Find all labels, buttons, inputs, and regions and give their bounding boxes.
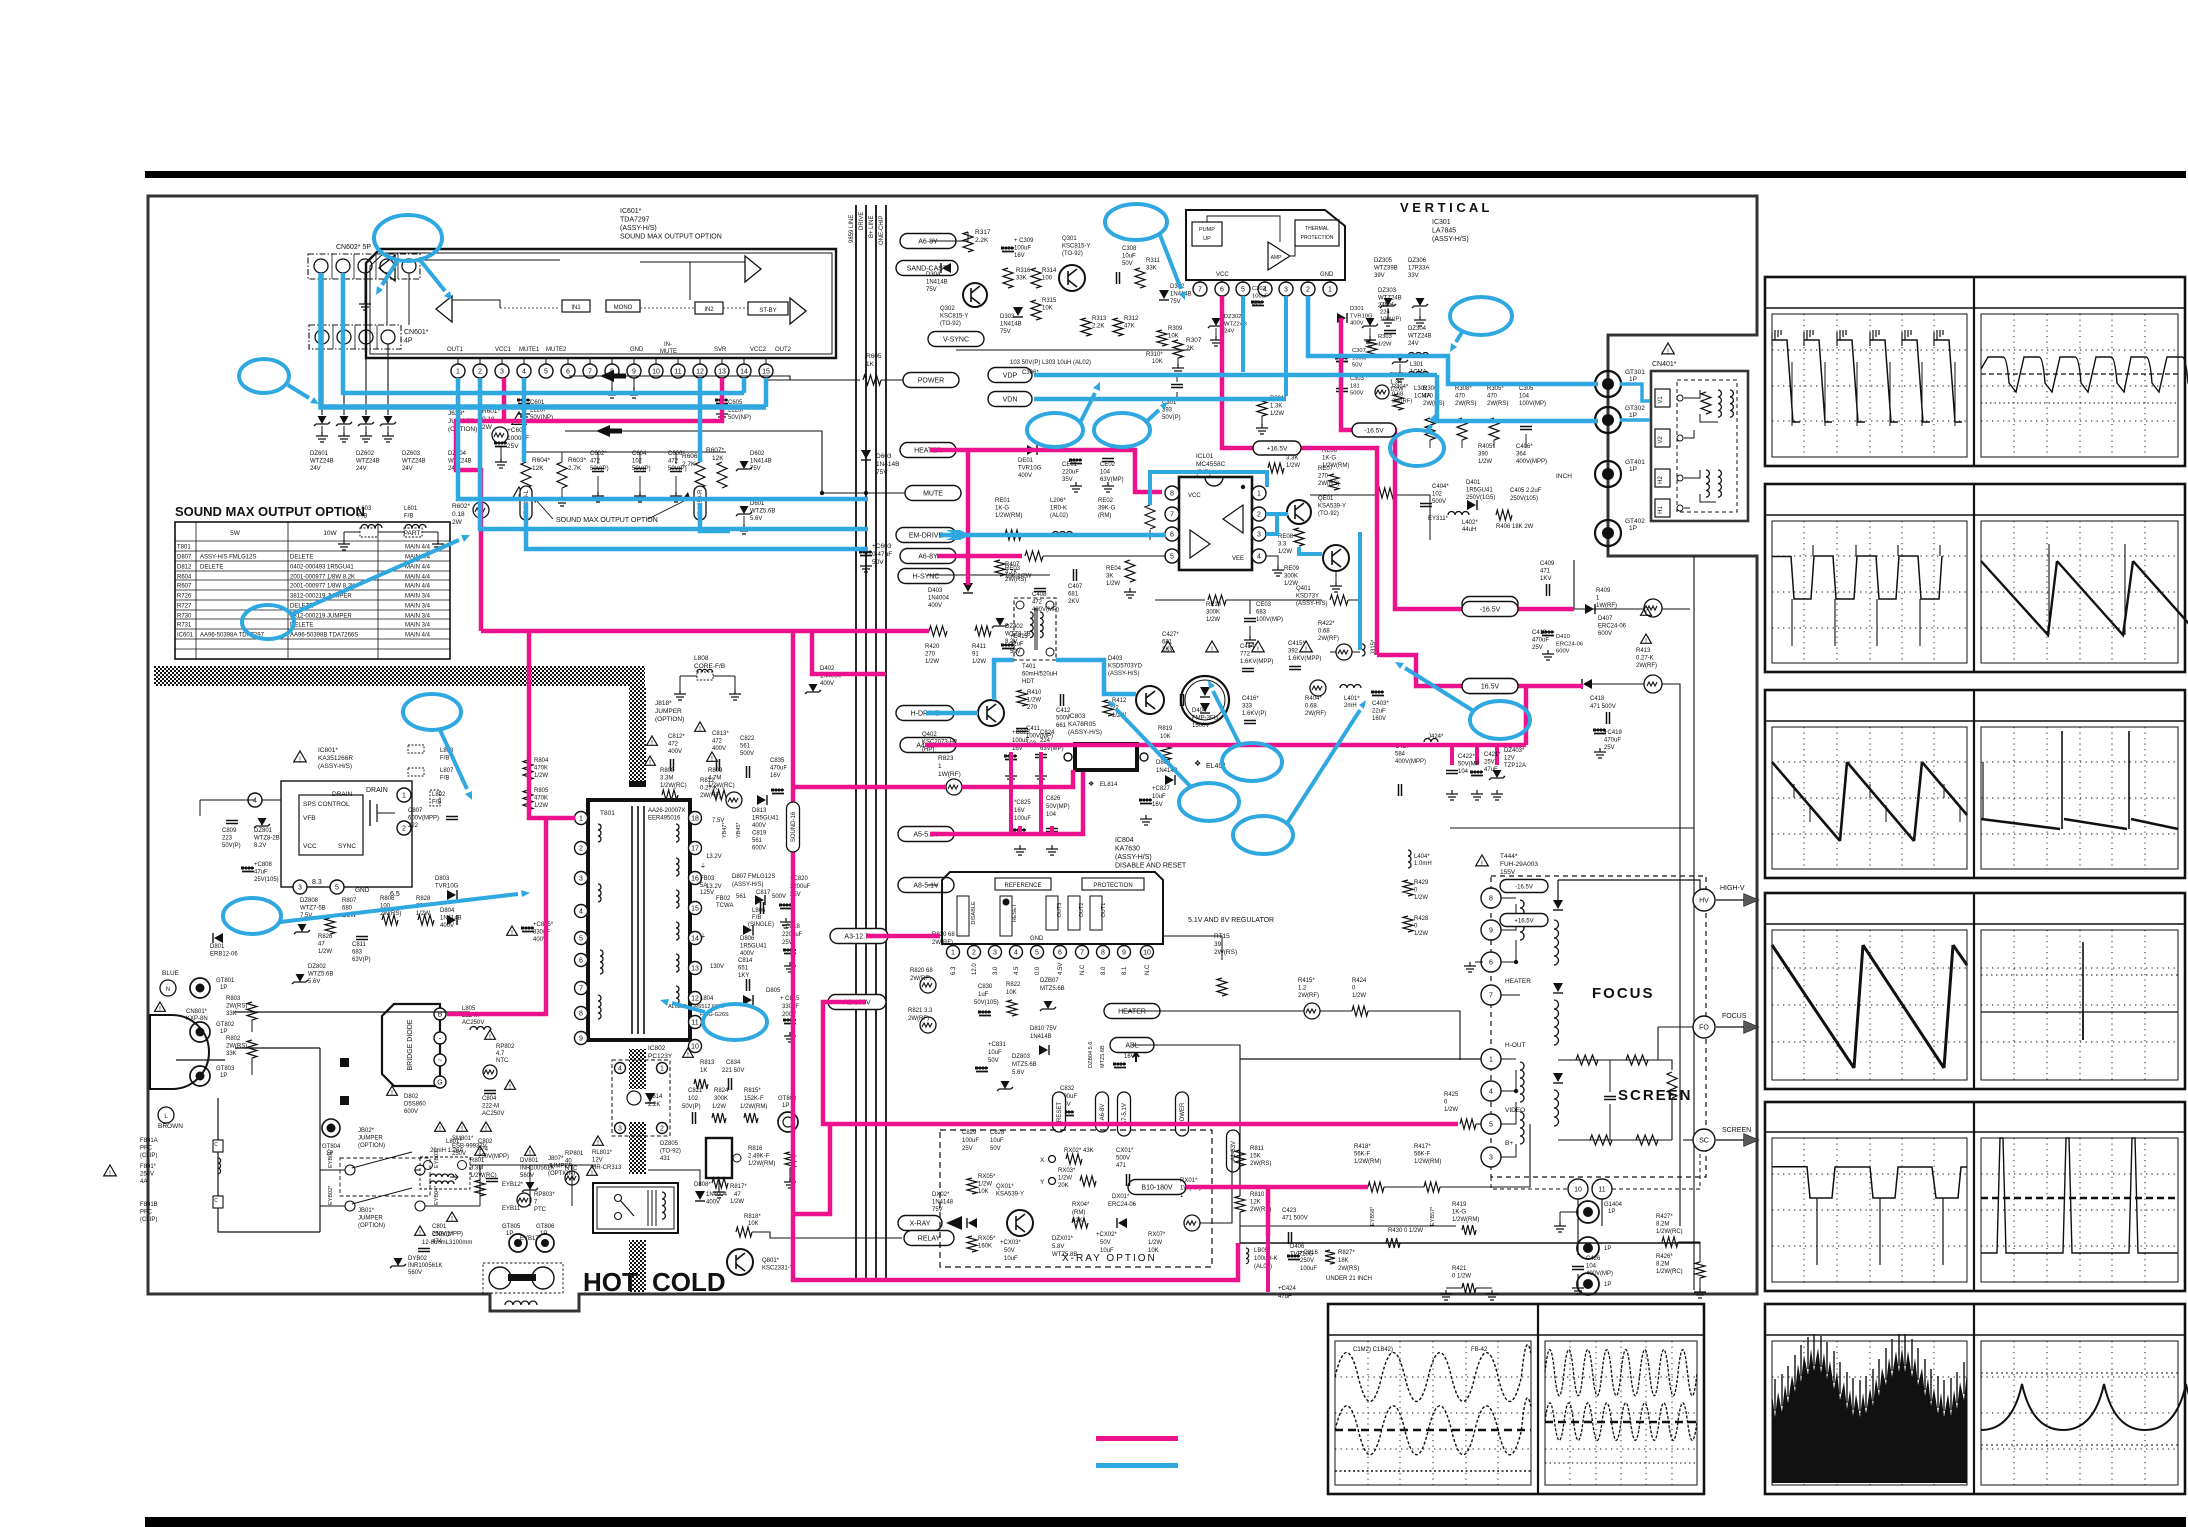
svg-text:(SINGLE): (SINGLE) (748, 922, 774, 928)
svg-text:KSC815-Y: KSC815-Y (940, 314, 968, 320)
svg-text:500V: 500V (740, 751, 754, 757)
svg-text:C408: C408 (1032, 592, 1047, 598)
C801 DYB02 (415, 1226, 426, 1235)
svg-text:FB03: FB03 (700, 876, 715, 882)
svg-text:C822: C822 (740, 736, 755, 742)
svg-text:50V: 50V (988, 1058, 999, 1064)
svg-text:560V: 560V (408, 1270, 422, 1276)
svg-text:1/2W: 1/2W (1444, 1107, 1458, 1113)
svg-text:(ASSY-H/S): (ASSY-H/S) (1108, 671, 1139, 677)
cyan net: ICL01 loop (1150, 472, 1267, 505)
svg-text:1P: 1P (1629, 466, 1637, 473)
svg-text:VCC: VCC (1216, 272, 1229, 278)
svg-text:8: 8 (1489, 896, 1493, 903)
wire A8-5.1V (928, 884, 938, 886)
svg-text:R804: R804 (534, 758, 549, 764)
svg-text:1/2W: 1/2W (1414, 931, 1428, 937)
svg-text:472: 472 (1032, 600, 1043, 606)
svg-text:25V: 25V (1484, 760, 1495, 766)
main schematic frame (148, 196, 1757, 1311)
svg-text:D603: D603 (876, 453, 892, 460)
svg-text:2W(RS): 2W(RS) (1318, 481, 1339, 487)
svg-text:SC: SC (1699, 1138, 1709, 1145)
svg-text:5: 5 (335, 885, 339, 892)
svg-text:R806: R806 (380, 896, 395, 902)
QX01 (1007, 1210, 1033, 1236)
svg-text:100V(MP): 100V(MP) (1519, 401, 1546, 407)
GT301 GT302 GT401 GT402 (1595, 371, 1621, 397)
tag H-SYNC (898, 569, 954, 584)
magenta net: A6-8Y bias (937, 554, 1022, 559)
svg-text:1K-G: 1K-G (995, 506, 1009, 512)
svg-text:400V(MP): 400V(MP) (1032, 607, 1059, 613)
svg-text:1P: 1P (1629, 376, 1637, 383)
svg-text:91: 91 (972, 652, 979, 658)
svg-text:D5S860: D5S860 (404, 1102, 426, 1108)
svg-text:C811: C811 (352, 942, 367, 948)
svg-text:(TO-92): (TO-92) (1062, 251, 1083, 257)
svg-text:C835: C835 (770, 758, 785, 764)
svg-text:0402-000493 1R5GU41: 0402-000493 1R5GU41 (290, 565, 354, 571)
svg-text:C422*: C422* (1458, 754, 1475, 760)
IC601 IN1 box (562, 300, 590, 312)
svg-text:(ASSY-H/S): (ASSY-H/S) (1115, 854, 1152, 861)
svg-text:D601: D601 (750, 501, 765, 507)
svg-text:R404*: R404* (1305, 696, 1322, 702)
svg-text:224: 224 (1380, 309, 1390, 315)
svg-text:!: ! (511, 930, 513, 937)
svg-text:7: 7 (579, 986, 583, 993)
svg-text:50V(P): 50V(P) (632, 466, 651, 472)
svg-text:R811: R811 (1250, 1146, 1265, 1152)
magenta net: A3-12.7V tag link (866, 934, 940, 939)
svg-text:181: 181 (1350, 383, 1360, 389)
svg-text:!: ! (649, 760, 651, 767)
svg-text:10uF: 10uF (1004, 1256, 1018, 1262)
svg-text:392: 392 (1288, 649, 1299, 655)
svg-text:0 1/2W: 0 1/2W (1452, 1274, 1471, 1280)
svg-text:1/2W: 1/2W (1284, 581, 1298, 587)
svg-text:L601: L601 (404, 506, 418, 512)
svg-text:155V: 155V (1500, 869, 1516, 876)
svg-text:14: 14 (740, 369, 748, 376)
svg-text:25V: 25V (507, 443, 519, 450)
svg-text:EY311*: EY311* (1428, 516, 1449, 522)
svg-text:DRAIN: DRAIN (366, 787, 388, 794)
R801 DV801 RP801 (475, 1146, 486, 1155)
svg-text:AA26-20007X: AA26-20007X (648, 808, 685, 814)
svg-text:SOUND MAX OUTPUT OPTION: SOUND MAX OUTPUT OPTION (620, 234, 722, 241)
svg-text:102: 102 (688, 1096, 699, 1102)
svg-text:(OPTION): (OPTION) (448, 426, 477, 433)
svg-text:22uF: 22uF (1372, 709, 1386, 715)
svg-text:11: 11 (674, 369, 681, 376)
svg-text:JUMPER: JUMPER (358, 1136, 383, 1142)
svg-text:400V: 400V (752, 823, 766, 829)
svg-text:IN2: IN2 (704, 307, 714, 313)
svg-text:3.0: 3.0 (993, 966, 999, 975)
IC601 pins 1-15 (451, 364, 465, 378)
magenta net: IC601 VCC2 pin13 (504, 378, 722, 421)
svg-text:5: 5 (1489, 1122, 1493, 1129)
svg-text:1.3K: 1.3K (1270, 404, 1282, 410)
svg-text:RE01: RE01 (995, 498, 1011, 504)
svg-text:F/B: F/B (404, 514, 413, 520)
CN601 connector 4P (309, 325, 401, 349)
svg-text:584: 584 (1395, 752, 1406, 758)
svg-text:39K-G: 39K-G (1098, 506, 1116, 512)
svg-text:364: 364 (1516, 452, 1527, 458)
svg-text:KSD5703YD: KSD5703YD (1108, 664, 1143, 670)
svg-text:GT302: GT302 (1625, 405, 1645, 412)
svg-text:L802: L802 (432, 792, 446, 798)
svg-text:C416*: C416* (1242, 696, 1259, 702)
svg-text:1/2W: 1/2W (534, 803, 548, 809)
svg-text:Y: Y (1040, 1179, 1045, 1186)
svg-text:DZ808: DZ808 (300, 898, 319, 904)
svg-text:16V: 16V (1152, 802, 1163, 808)
svg-text:5.6V: 5.6V (750, 516, 762, 522)
svg-text:CE03: CE03 (1256, 602, 1272, 608)
svg-text:9: 9 (1489, 928, 1493, 935)
svg-text:ABL: ABL (1125, 1043, 1138, 1050)
svg-text:1N4148: 1N4148 (932, 1200, 954, 1206)
svg-text:BLUE: BLUE (162, 970, 180, 977)
svg-text:100V(MP): 100V(MP) (1256, 617, 1283, 623)
option table (175, 522, 450, 659)
svg-text:10uF: 10uF (990, 1138, 1004, 1144)
svg-text:PFC: PFC (140, 1146, 153, 1152)
svg-text:600V: 600V (404, 1109, 418, 1115)
svg-text:681: 681 (1068, 592, 1079, 598)
svg-text:RX07*: RX07* (1148, 1232, 1166, 1238)
svg-text:18K: 18K (1338, 1258, 1349, 1264)
svg-text:561: 561 (736, 894, 747, 900)
svg-text:16V: 16V (770, 773, 781, 779)
svg-text:12-8ohmL3100mm: 12-8ohmL3100mm (422, 1240, 472, 1246)
svg-text:B+ LINE: B+ LINE (869, 215, 875, 238)
PUMP UP box (1192, 222, 1222, 246)
svg-text:4: 4 (618, 1066, 622, 1073)
QE01 (1287, 500, 1311, 524)
magenta net: D402 branch (812, 631, 886, 674)
svg-text:1: 1 (938, 763, 942, 770)
svg-text:+C419: +C419 (1604, 730, 1623, 736)
R316 (1003, 268, 1013, 288)
legend magenta line (1096, 1436, 1178, 1441)
svg-text:25V: 25V (1604, 745, 1615, 751)
svg-text:1K-G: 1K-G (1452, 1210, 1466, 1216)
svg-text:TVR10G: TVR10G (1018, 466, 1042, 472)
svg-text:10K: 10K (1006, 990, 1017, 996)
scope panel P1 (1765, 277, 2185, 466)
SM801 (457, 1122, 468, 1131)
svg-text:4.7: 4.7 (496, 1051, 505, 1057)
svg-text:RE04: RE04 (1106, 566, 1122, 572)
svg-text:0.0: 0.0 (1035, 966, 1041, 975)
cyan ellipse callout 6/7 (VDP VDN) (1027, 413, 1083, 447)
svg-text:2W: 2W (482, 424, 493, 431)
svg-text:103 50V(P) L303 10uH (AL02): 103 50V(P) L303 10uH (AL02) (1010, 360, 1091, 366)
R818 (736, 1227, 752, 1237)
svg-text:R607*: R607* (706, 447, 725, 454)
Q801 (727, 1249, 753, 1275)
svg-text:1: 1 (579, 816, 583, 823)
svg-text:!: ! (597, 1140, 599, 1147)
cyan net: pin12 (698, 378, 703, 462)
svg-text:KA78R05: KA78R05 (1068, 721, 1096, 728)
svg-text:471: 471 (1540, 569, 1551, 575)
svg-text:270: 270 (1027, 705, 1038, 711)
D402 1N4004 (809, 684, 818, 692)
IF-9859-L vertical oval (520, 486, 532, 520)
svg-text:C813*: C813* (712, 731, 729, 737)
tag RELAY (904, 1231, 954, 1246)
svg-text:F/B: F/B (752, 915, 761, 921)
svg-text:MAIN 4/4: MAIN 4/4 (405, 633, 431, 639)
svg-text:2: 2 (1257, 512, 1261, 519)
tag A5-5.1V (898, 827, 954, 842)
svg-text:561: 561 (752, 838, 763, 844)
svg-text:RE10: RE10 (1206, 602, 1222, 608)
C804 (484, 1091, 496, 1094)
IC801 pins (248, 793, 262, 807)
svg-text:!: ! (591, 1170, 593, 1177)
svg-text:5: 5 (579, 936, 583, 943)
svg-text:4: 4 (522, 369, 526, 376)
svg-text:R827*: R827* (1338, 1250, 1355, 1256)
svg-text:R413: R413 (1636, 648, 1651, 654)
svg-text:POWER: POWER (918, 378, 944, 385)
cyan net: H-DRIVE (926, 711, 978, 716)
svg-text:6.3: 6.3 (951, 966, 957, 975)
cyan ellipse callout 9 (1470, 701, 1530, 739)
svg-text:2W(RF): 2W(RF) (700, 793, 721, 799)
svg-text:470: 470 (1455, 394, 1466, 400)
tag A4-12V (900, 738, 956, 753)
svg-text:1P: 1P (540, 1231, 547, 1237)
svg-text:470K: 470K (534, 796, 548, 802)
CN401 yoke windings (1684, 390, 1700, 398)
svg-text:JUMPER: JUMPER (548, 1164, 573, 1170)
svg-text:1N414B: 1N414B (750, 459, 772, 465)
svg-text:0.47uF: 0.47uF (872, 551, 892, 558)
svg-text:R730: R730 (177, 614, 192, 620)
svg-text:50V(P): 50V(P) (222, 843, 241, 849)
CN801 connector (150, 1015, 209, 1089)
svg-text:10: 10 (1574, 1187, 1582, 1194)
svg-text:102: 102 (632, 459, 643, 465)
svg-text:25V: 25V (1532, 645, 1543, 651)
svg-text:DZ305: DZ305 (1374, 258, 1393, 264)
svg-text:R428: R428 (1414, 916, 1429, 922)
svg-text:GND: GND (1320, 272, 1334, 278)
svg-text:CX01*: CX01* (1116, 1148, 1134, 1154)
svg-text:DZ306: DZ306 (1408, 258, 1427, 264)
svg-text:GT301: GT301 (1625, 369, 1645, 376)
svg-text:2W(RS): 2W(RS) (1338, 1266, 1359, 1272)
svg-text:!: ! (687, 1052, 689, 1059)
svg-text:R310*: R310* (1146, 352, 1163, 358)
svg-text:0: 0 (1414, 888, 1418, 894)
svg-text:400V: 400V (820, 681, 834, 687)
svg-text:D410: D410 (1556, 634, 1570, 640)
svg-text:50V: 50V (1010, 649, 1021, 655)
svg-text:C: C (214, 1142, 218, 1148)
svg-text:V1: V1 (1658, 396, 1664, 404)
svg-text:9: 9 (1122, 950, 1126, 957)
svg-text:QE01: QE01 (1318, 496, 1334, 502)
svg-text:400V: 400V (706, 1200, 720, 1206)
svg-text:(HP): (HP) (922, 747, 934, 753)
magenta net: audio supply to R420 (481, 629, 929, 634)
svg-text:IC801*: IC801* (318, 747, 338, 754)
svg-text:50V: 50V (990, 1146, 1001, 1152)
svg-text:PTC: PTC (534, 1207, 547, 1213)
svg-text:1W(RF): 1W(RF) (938, 771, 961, 778)
tag X-RAY (898, 1216, 942, 1231)
svg-text:1.6KV(MPP): 1.6KV(MPP) (1288, 656, 1321, 662)
RP803 PTC (517, 1193, 531, 1207)
svg-text:250V(MPP): 250V(MPP) (478, 1154, 509, 1160)
svg-text:!: ! (159, 1006, 161, 1013)
R307 (1173, 340, 1183, 358)
svg-text:50V: 50V (1100, 1240, 1111, 1246)
svg-text:R726: R726 (177, 594, 192, 600)
svg-text:2.2K: 2.2K (1092, 324, 1104, 330)
svg-text:R420: R420 (925, 644, 940, 650)
svg-text:5.8V: 5.8V (1052, 1244, 1064, 1250)
top page border bar (145, 171, 2186, 178)
svg-text:!: ! (1167, 647, 1169, 654)
svg-text:1: 1 (1489, 1057, 1493, 1064)
svg-text:15K: 15K (1250, 1154, 1261, 1160)
svg-text:!: ! (391, 1090, 393, 1097)
svg-text:5W: 5W (230, 530, 241, 537)
svg-text:C824: C824 (1040, 730, 1055, 736)
D301 TVR10G (1337, 313, 1346, 323)
svg-text:H2: H2 (1658, 476, 1664, 484)
svg-text:RP802: RP802 (496, 1044, 515, 1050)
svg-text:500V: 500V (1116, 1156, 1130, 1162)
CN401 V1 V2 H2 H1 pins (1655, 389, 1670, 407)
CN602/CN601 column wires + DZ601-DZ604 zeners (364, 273, 366, 300)
svg-text:3: 3 (579, 876, 583, 883)
svg-text:1/2W(RM): 1/2W(RM) (1354, 1159, 1381, 1165)
svg-text:D407: D407 (1598, 616, 1613, 622)
svg-text:1R5GU41: 1R5GU41 (752, 816, 779, 822)
svg-text:SPS CONTROL: SPS CONTROL (303, 801, 350, 808)
svg-text:R419: R419 (1452, 1202, 1467, 1208)
svg-text:15: 15 (691, 906, 699, 913)
Q402 (978, 700, 1004, 726)
C603 (865, 493, 867, 550)
svg-text:12: 12 (691, 996, 699, 1003)
svg-text:EYB11*: EYB11* (502, 1206, 523, 1212)
magenta tag -16.5V mid (1352, 423, 1396, 437)
svg-text:22uF: 22uF (1010, 642, 1024, 648)
svg-text:JB01*: JB01* (358, 1208, 375, 1214)
svg-text:R812: R812 (700, 778, 715, 784)
svg-text:(TO-92): (TO-92) (1318, 511, 1339, 517)
svg-text:600V: 600V (1556, 649, 1570, 655)
IC801 KA351266R label (294, 751, 307, 762)
svg-text:❖: ❖ (1088, 781, 1094, 788)
svg-text:1/2W(RC): 1/2W(RC) (1656, 1229, 1683, 1235)
svg-text:75V: 75V (926, 287, 937, 293)
svg-text:IC804: IC804 (1115, 837, 1134, 844)
svg-text:1R0-K: 1R0-K (1050, 506, 1067, 512)
legend cyan line (1096, 1463, 1178, 1468)
svg-text:L404*: L404* (1414, 854, 1430, 860)
svg-text:11: 11 (1598, 1187, 1605, 1194)
svg-text:1.2: 1.2 (1298, 986, 1307, 992)
svg-text:R429: R429 (1414, 880, 1429, 886)
svg-text:10uF: 10uF (1152, 794, 1166, 800)
svg-text:D303: D303 (1000, 314, 1015, 320)
svg-text:470: 470 (1423, 394, 1434, 400)
svg-text:5: 5 (1170, 554, 1174, 561)
svg-text:3: 3 (1489, 1155, 1493, 1162)
svg-text:R313: R313 (1092, 316, 1107, 322)
svg-text:R603*: R603* (568, 457, 587, 464)
svg-text:1P: 1P (1629, 525, 1637, 532)
FBT HV winding + diodes (1557, 880, 1559, 900)
R304 (1375, 385, 1389, 399)
svg-text:R422*: R422* (1318, 621, 1335, 627)
svg-text:+16.5V: +16.5V (1514, 919, 1533, 925)
svg-text:CE01: CE01 (1062, 462, 1078, 468)
svg-text:DISABLE: DISABLE (971, 901, 977, 925)
wire RELAY long (930, 1231, 1240, 1233)
svg-text:C307: C307 (1352, 348, 1366, 354)
R311 (1135, 268, 1145, 288)
svg-text:1/2W: 1/2W (1286, 463, 1300, 469)
svg-text:R425: R425 (1444, 1092, 1459, 1098)
svg-text:2W(RS): 2W(RS) (1250, 1161, 1271, 1167)
C302 (1252, 302, 1264, 306)
C805 (522, 928, 534, 932)
svg-text:5A: 5A (700, 883, 707, 889)
svg-text:R315: R315 (1042, 298, 1057, 304)
svg-text:47uF: 47uF (1278, 1294, 1292, 1300)
cyan ellipse callout 5 (1450, 297, 1512, 335)
svg-text:C405 2.2uF: C405 2.2uF (1510, 488, 1542, 494)
X-RAY OPTION dashed box (940, 1130, 1212, 1267)
R412 (1103, 700, 1113, 716)
svg-text:EM-DRIVE: EM-DRIVE (909, 533, 944, 540)
R404 L401 C403 (1310, 680, 1326, 696)
svg-text:C302: C302 (1252, 286, 1266, 292)
svg-text:2: 2 (478, 369, 482, 376)
svg-text:1: 1 (1180, 1193, 1184, 1199)
svg-text:24V: 24V (356, 466, 367, 472)
IC801 SPS CONTROL box (281, 781, 412, 887)
hatch barrier horizontal (154, 666, 645, 686)
svg-text:470uF: 470uF (770, 766, 787, 772)
svg-text:R311: R311 (1146, 258, 1161, 264)
svg-text:MTZ5.6B: MTZ5.6B (1040, 986, 1065, 992)
svg-text:DZ602: DZ602 (356, 451, 375, 457)
svg-text:0: 0 (1444, 1100, 1448, 1106)
svg-text:DZ803: DZ803 (1012, 1054, 1031, 1060)
svg-text:44uH: 44uH (1462, 527, 1476, 533)
svg-text:VDP: VDP (1003, 373, 1018, 380)
svg-text:R810: R810 (1250, 1192, 1265, 1198)
svg-text:2001-000977 1/8W 8.2K: 2001-000977 1/8W 8.2K (290, 575, 355, 581)
svg-text:KSD73Y: KSD73Y (1296, 594, 1319, 600)
R315 (1031, 300, 1041, 320)
